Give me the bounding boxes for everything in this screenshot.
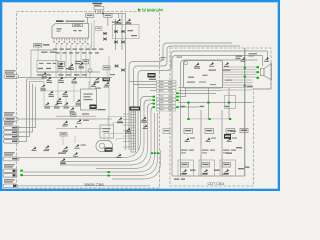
wire: [89, 45, 91, 89]
node (green): [229, 118, 231, 120]
wire: [172, 56, 263, 177]
wire stubs X201: [123, 113, 131, 115]
wire: [73, 81, 75, 102]
node (green): [187, 118, 189, 120]
label: [112, 22, 118, 23]
wire: [108, 117, 131, 125]
wire: [37, 71, 100, 73]
label: [75, 61, 81, 62]
transistor Q115: [41, 72, 46, 76]
capacitor box: [71, 113, 77, 117]
wire: [40, 90, 80, 92]
wire: [60, 112, 144, 162]
connector G5 label: [4, 164, 15, 165]
node (green): [157, 152, 159, 154]
wire: [118, 14, 120, 19]
wire: [56, 128, 103, 130]
wire: [91, 23, 93, 50]
transistor Q721: [226, 138, 231, 142]
lamp box L2: [202, 163, 210, 168]
diode D106: [121, 69, 125, 72]
switch cell outline: [178, 160, 194, 176]
wire: [87, 17, 89, 23]
label: [223, 152, 228, 153]
wire: [27, 78, 45, 80]
connector CN601 upper pins: [157, 80, 177, 83]
border frame bottom: [0, 189, 280, 191]
wire: [100, 10, 102, 14]
transistor Q112: [58, 63, 63, 67]
wire: [106, 70, 108, 81]
wire: [270, 62, 272, 89]
transistor Q703: [182, 169, 187, 173]
wire: [65, 93, 67, 107]
transistor Q103: [40, 84, 45, 88]
wire: [30, 50, 32, 78]
node (green): [244, 76, 246, 78]
border frame left: [0, 0, 2, 191]
label B+: [181, 106, 186, 107]
capacitor row C1xx: [56, 52, 60, 53]
IC101 pin numbers: [53, 41, 55, 42]
scd box 3: [226, 129, 235, 134]
IC101 ref label: [56, 20, 64, 22]
pads (green) CN right: [176, 92, 178, 94]
node (green): [20, 170, 23, 172]
IC601 pin1 mark: [184, 61, 188, 65]
wire: [112, 150, 161, 179]
wire: [134, 46, 241, 150]
wire: [129, 43, 232, 150]
node (green): [108, 171, 110, 173]
diode D102: [121, 30, 125, 33]
transistor Q105: [62, 91, 67, 95]
CDT CBA dashed board outline: [170, 48, 271, 186]
connector LINE OUT label: [4, 121, 15, 122]
transistor Q209: [73, 152, 78, 156]
transistor Q713: [203, 169, 208, 173]
label SW: [161, 57, 166, 58]
node B+: [102, 13, 104, 15]
wire: [113, 122, 131, 125]
wire: [200, 110, 202, 176]
wire: [221, 110, 223, 176]
svg-text:TO MAIN CBA: TO MAIN CBA: [142, 8, 165, 12]
border frame top: [0, 0, 280, 2]
label: [149, 79, 156, 80]
wire: [179, 102, 253, 104]
wire: [141, 97, 154, 113]
diode network box: [113, 25, 140, 39]
wire: [23, 113, 158, 176]
IC101 inner label: [57, 28, 62, 29]
wire: [150, 90, 157, 92]
label: [247, 86, 253, 87]
transistor Q701: [184, 138, 189, 142]
transistor Q108: [91, 83, 96, 87]
wire: [228, 88, 230, 119]
label 2SD: [236, 56, 243, 57]
resistor labels: [38, 68, 43, 69]
wire: [18, 185, 151, 187]
label: [190, 170, 196, 171]
label: [58, 153, 66, 154]
transistor Q102: [71, 77, 76, 81]
resistor network box: [37, 61, 58, 73]
component box: [58, 62, 65, 67]
label: [181, 152, 186, 153]
node (green): [208, 118, 210, 120]
label: [181, 150, 188, 151]
transistor Q605: [264, 57, 269, 61]
connector X703 (dark): [224, 134, 231, 139]
wire: [129, 81, 157, 83]
wire: [144, 100, 154, 112]
wire: [179, 89, 223, 91]
label: [82, 113, 89, 114]
wire: [44, 106, 80, 108]
transistor Q207: [116, 154, 121, 158]
pads (green) CN left: [153, 96, 155, 98]
transistor Q104: [116, 19, 121, 23]
MAIN CBA dashed board outline: [17, 12, 160, 189]
wire: [102, 10, 104, 14]
label: [39, 63, 44, 64]
wire: [116, 139, 131, 141]
connector G4 label: [4, 152, 15, 153]
label pair: [41, 52, 48, 53]
label: [177, 57, 183, 58]
wire: [97, 10, 99, 14]
connector X102 body: [94, 7, 104, 10]
transistor Q105: [126, 19, 131, 23]
wire: [18, 127, 19, 129]
label: [236, 147, 242, 148]
wire: [253, 88, 272, 90]
label: [245, 167, 250, 168]
wire: [57, 79, 59, 100]
wire bus under IC101: [55, 45, 57, 78]
wire: [179, 87, 223, 89]
wire: [262, 56, 264, 67]
connector CN601 lower pins: [157, 95, 176, 98]
border frame right: [278, 0, 280, 191]
box BLK: [104, 14, 112, 18]
transistor Q215: [44, 145, 49, 149]
transistor Q208: [60, 158, 65, 162]
wire: [96, 112, 151, 169]
transistor Q114: [78, 62, 83, 66]
wire: [62, 136, 64, 145]
transistor Q107: [44, 102, 49, 106]
wire: [43, 81, 45, 107]
label B+: [200, 106, 205, 107]
wire: [93, 20, 95, 50]
transistor Q210: [31, 147, 36, 151]
op-amp IC601 body: [184, 61, 223, 89]
transistor Q213: [63, 146, 68, 150]
wire: [18, 87, 36, 128]
label: [95, 88, 101, 89]
transistor Q108: [54, 102, 59, 106]
transistor Q212: [76, 119, 81, 123]
wire: [56, 115, 96, 117]
wire: [74, 136, 76, 143]
node (green): [244, 85, 246, 87]
label: [223, 150, 230, 151]
diode pair: [103, 32, 107, 35]
wire: [208, 88, 210, 119]
wire: [172, 175, 245, 177]
node (green): [244, 67, 246, 69]
box TP3: [103, 66, 110, 70]
transistor Q106: [94, 77, 99, 81]
speaker LS601: [261, 64, 272, 81]
transistor Q723: [224, 169, 229, 173]
node: [76, 126, 77, 127]
wire: [107, 17, 109, 26]
transistor Q601: [194, 63, 199, 67]
jack box: [225, 96, 236, 109]
node (green): [151, 152, 153, 154]
connector G2 label: [4, 112, 15, 113]
wire: [95, 10, 97, 14]
pads (green) speaker column: [256, 66, 259, 68]
lamp box L3: [223, 163, 231, 168]
switch cell outline: [199, 160, 215, 176]
connector LINE IN label: [5, 70, 16, 71]
transistor Q100: [46, 77, 51, 81]
lamp box L1: [181, 163, 189, 168]
wire: [18, 82, 30, 137]
resistor labels: [37, 74, 43, 75]
transistor Q107: [104, 82, 109, 86]
wire: [37, 47, 39, 61]
connector X103 (dark): [103, 77, 111, 81]
connector G2 jack: [4, 117, 19, 121]
net label TO MAIN CBA (green): [138, 8, 141, 11]
IC101 pins: [53, 38, 55, 41]
transistor Q110: [75, 99, 80, 103]
node (green): [187, 102, 189, 104]
transistor Q111: [69, 107, 74, 111]
box REC: [60, 133, 67, 137]
switch block S201: [81, 89, 97, 110]
connector X201 label (dark): [130, 107, 141, 111]
wire: [88, 81, 90, 89]
wire: [31, 49, 54, 51]
svg-text:MAIN CBA: MAIN CBA: [85, 182, 105, 187]
node (green): [108, 175, 110, 177]
wire: [19, 79, 27, 142]
connector X202 (dark): [90, 105, 97, 110]
label B+: [225, 106, 230, 107]
wire: [96, 13, 126, 15]
connector G5 jack A: [3, 169, 17, 173]
wire: [18, 118, 97, 120]
component box: [83, 59, 89, 64]
switch cell outline: [220, 160, 236, 176]
wire: [188, 103, 190, 120]
wire: [148, 104, 154, 113]
svg-text:CDT CBA: CDT CBA: [208, 182, 225, 186]
label: [230, 131, 236, 132]
label 2SD: [249, 53, 258, 54]
wire: [96, 118, 112, 120]
wire: [267, 51, 269, 62]
label: [98, 109, 106, 110]
connector G6 jack: [3, 184, 18, 188]
connector LINE IN jack: [4, 75, 19, 79]
connector G6 label: [4, 179, 15, 180]
diode D103: [114, 41, 118, 44]
label: [43, 44, 50, 45]
component box: [96, 27, 103, 31]
IC101 inner box: [73, 24, 83, 27]
connector box X: [163, 129, 170, 134]
diode D105: [114, 65, 118, 68]
wire: [179, 106, 200, 108]
box MUTE: [86, 14, 94, 18]
wire: [115, 19, 117, 50]
wire: [121, 14, 123, 51]
connector X201 strip: [131, 111, 136, 153]
transistor Q211: [63, 121, 68, 125]
connector LINE OUT jacks: [4, 126, 20, 130]
connector G5 jack B: [3, 174, 17, 178]
transistor Q604: [240, 57, 245, 61]
wire: [23, 113, 155, 172]
wire: [189, 118, 230, 120]
label: [174, 179, 180, 180]
label: [202, 152, 207, 153]
box SCD: [240, 129, 248, 133]
transistor Q104: [48, 91, 53, 95]
node (green): [228, 102, 230, 104]
connector G4 jack: [3, 157, 19, 161]
wire: [125, 14, 127, 151]
diode pair: [103, 38, 107, 41]
scd box 1: [184, 129, 193, 134]
transistor Q106: [56, 98, 61, 102]
test point TP101 box: [34, 44, 42, 48]
connector X203 (dark): [105, 148, 113, 152]
connector X601 label (dark): [148, 73, 156, 78]
node (green): [20, 174, 23, 176]
wire: [179, 88, 186, 97]
label: [188, 77, 194, 78]
wire bundle to speaker: [223, 66, 257, 68]
label: [202, 150, 209, 151]
transistor Q109: [63, 102, 68, 106]
wire: [60, 112, 148, 165]
motor M201 oval: [96, 141, 113, 152]
wire: [179, 92, 217, 94]
relay box: [100, 125, 114, 138]
label: [238, 168, 244, 169]
wire: [30, 81, 45, 83]
transistor Q214: [74, 144, 79, 148]
wire LINE IN feed: [19, 77, 113, 79]
wire: [104, 133, 131, 140]
transistor Q203: [117, 117, 122, 121]
transistor Q711: [205, 138, 210, 142]
diode D101: [114, 30, 118, 33]
transistor Q606: [224, 62, 229, 66]
wire: [151, 107, 154, 112]
connector X102 labels: [93, 3, 103, 5]
wire: [134, 84, 157, 86]
transistor Q602: [209, 62, 214, 66]
node (green): [207, 102, 209, 104]
wire: [181, 60, 258, 176]
transistor Q101: [58, 77, 63, 81]
wire: [138, 51, 268, 150]
resistor row R1xx: [53, 49, 58, 50]
wire: [18, 84, 33, 132]
transistor Q206: [142, 125, 147, 129]
transistor Q205: [141, 117, 146, 121]
wire: [19, 112, 141, 158]
transistor Q113: [68, 64, 73, 68]
op-amp U IC101 body: [52, 24, 89, 39]
scd box 2: [205, 129, 214, 134]
transistor Q204: [125, 128, 130, 132]
node (green): [154, 152, 156, 154]
wire: [108, 56, 110, 141]
IC101 inner marks: [74, 30, 77, 31]
rail B+ (dark): [244, 48, 246, 176]
wire: [138, 87, 157, 89]
diode D104: [121, 41, 125, 44]
test point TP circle: [88, 69, 92, 73]
